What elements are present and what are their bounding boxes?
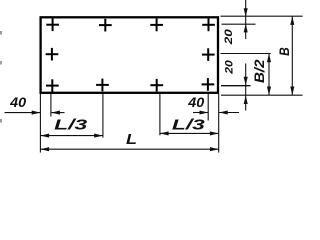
dimension B/2 line: [268, 54, 270, 96]
extension line bottom edge (right): [221, 94, 303, 96]
dimension L: [40, 148, 218, 150]
hole mark T3: [150, 19, 163, 32]
svg-text:B/2: B/2: [251, 59, 267, 83]
svg-text:20: 20: [223, 59, 235, 75]
dimension L/3 right: [160, 132, 219, 134]
hole mark T2: [99, 19, 112, 32]
extension line hole col 3 (bottom): [159, 94, 161, 135]
svg-text:L/3: L/3: [172, 117, 206, 134]
svg-text:20: 20: [223, 28, 235, 45]
extension line hole col 1 (bottom): [50, 94, 52, 117]
extension line hole col 2 (bottom): [102, 94, 104, 138]
hole mark B4: [202, 78, 215, 91]
dimension 20 top line: [245, 0, 247, 39]
extension line middle hole row (right): [221, 53, 271, 55]
hole mark M1: [46, 48, 59, 61]
svg-text:40: 40: [187, 94, 204, 110]
hole mark B1: [46, 79, 59, 92]
dimension L/3 left: [40, 135, 103, 137]
svg-text:L/3: L/3: [54, 117, 88, 134]
dimension 40 right: [193, 112, 208, 114]
extension line top edge (right): [221, 15, 303, 17]
hole mark T4: [202, 19, 215, 32]
extension line hole col 4 (bottom): [207, 94, 209, 121]
extension line top hole row (right): [222, 23, 256, 25]
plate outline: [41, 17, 218, 93]
svg-text:B: B: [276, 47, 292, 56]
dimension 20 bottom line: [245, 64, 247, 111]
dimension B line: [291, 16, 293, 95]
hole mark M2: [202, 48, 215, 61]
extension line bottom hole row (right): [221, 85, 251, 87]
extension line left edge (bottom): [39, 94, 41, 153]
extension line right edge (bottom): [218, 94, 220, 153]
hole mark B2: [96, 79, 109, 92]
svg-text:L: L: [126, 132, 137, 148]
scan artifact marks on left edge: [0, 31, 2, 35]
hole mark T1: [46, 18, 59, 31]
dimension 40 left: [5, 112, 41, 114]
svg-text:40: 40: [9, 94, 26, 110]
hole mark B3: [150, 79, 163, 92]
